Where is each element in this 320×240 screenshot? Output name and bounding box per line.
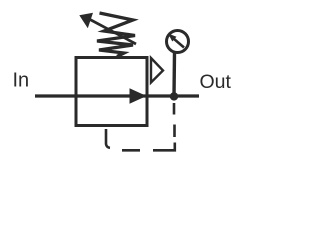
gauge stem wire xyxy=(172,53,176,97)
pressure gauge circle xyxy=(167,31,189,53)
junction dot on output line xyxy=(170,92,178,100)
pilot dashed line: vertical dash 3 below junction xyxy=(173,103,176,115)
gauge needle shaft xyxy=(174,39,185,48)
flow arrowhead inside box xyxy=(130,88,147,104)
adjustment arrow shaft through spring xyxy=(90,20,136,45)
svg-text:In: In xyxy=(13,69,30,91)
spring (adjustment) zigzag above box xyxy=(97,13,135,57)
relief vent triangle on right side of box xyxy=(151,58,163,83)
wire main flow line In to Out xyxy=(35,94,199,97)
pilot dashed line: horizontal dash 1 xyxy=(122,149,140,152)
svg-text:Out: Out xyxy=(200,71,232,93)
pilot dashed line: corner dash horizontal+up xyxy=(153,143,175,151)
pilot dashed line: vertical dash 2 xyxy=(173,125,176,138)
pilot dashed line: vertical dash below box xyxy=(106,129,110,148)
gauge needle arrowhead xyxy=(168,34,177,42)
adjustment arrowhead xyxy=(79,13,93,28)
regulator body box xyxy=(76,58,147,126)
